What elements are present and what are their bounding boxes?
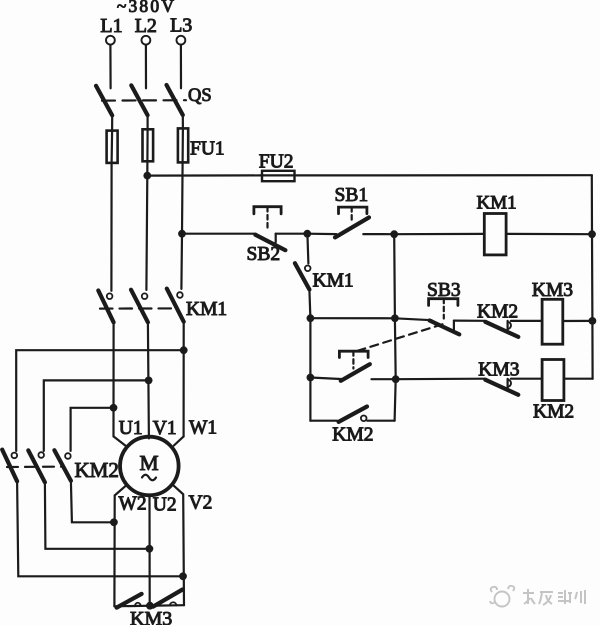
wire row2 to SB3 — [395, 318, 432, 320]
svg-text:L1: L1 — [100, 15, 122, 37]
fuse FU1 pole3 — [178, 128, 188, 162]
svg-text:QS: QS — [188, 86, 212, 106]
fuse FU2 label — [259, 152, 294, 173]
wire L2 to QS — [145, 45, 147, 89]
wire right rail lower segment — [591, 321, 593, 379]
watermark logo — [490, 586, 514, 607]
wire QS2 to FU1b — [147, 115, 149, 129]
svg-text:KM1: KM1 — [313, 271, 354, 292]
wire SB2 to node A — [276, 233, 308, 235]
wire branch row2-row3 — [394, 318, 397, 379]
contactor KM1 linkage dashed — [100, 307, 177, 309]
contactor KM1 main pole3 — [167, 289, 184, 322]
svg-text:SB3: SB3 — [427, 280, 461, 301]
wire left rail row2-row3 — [309, 318, 311, 377]
svg-text:FU2: FU2 — [259, 152, 294, 173]
wire L1 FU1 to KM1 main — [110, 163, 112, 291]
wire right rail mid segment — [591, 234, 594, 321]
terminal label W2 — [119, 494, 147, 515]
wire L1 to QS — [109, 45, 111, 89]
contactor KM2 main label — [75, 458, 119, 482]
node U2 join — [146, 545, 154, 553]
svg-text:~380V: ~380V — [117, 0, 176, 16]
wire crossover L1 to KM2 pole3 — [71, 408, 114, 451]
contactor KM3 pole2 — [153, 590, 183, 607]
coil KM1 label — [477, 193, 517, 214]
svg-text:SB1: SB1 — [335, 185, 369, 206]
node row3 mid — [392, 375, 400, 383]
terminal label U2 — [153, 495, 177, 516]
contactor KM2 linkage dashed — [7, 466, 63, 469]
svg-text:V2: V2 — [189, 493, 213, 514]
switch QS pole 2 blade — [131, 85, 147, 115]
coil KM1 — [484, 214, 506, 255]
pushbutton SB3 NC half — [429, 299, 460, 335]
svg-text:U1: U1 — [119, 418, 143, 439]
svg-text:L3: L3 — [170, 15, 192, 37]
contactor KM2 main pole3 — [54, 450, 71, 481]
fuse FU2 — [262, 171, 295, 181]
wire SB3 to KM2 NC — [454, 320, 485, 322]
svg-text:KM3: KM3 — [478, 360, 519, 381]
contact KM2 aux self-latch — [339, 407, 367, 422]
svg-text:KM3: KM3 — [130, 608, 172, 625]
wire row1 left — [182, 233, 256, 235]
mechanical link SB3 dashed — [358, 324, 444, 351]
contact KM2 aux label — [332, 425, 373, 446]
switch QS pole 3 blade — [167, 85, 183, 115]
pushbutton SB3 NO half — [339, 351, 369, 381]
contact KM2 NC interlock row2 — [485, 321, 518, 337]
wire U2 from motor — [148, 495, 150, 605]
node W2 join — [110, 518, 118, 526]
svg-text:FU1: FU1 — [190, 139, 225, 160]
wire U1 phase down — [112, 322, 114, 436]
wire KM2 pole3 to W2 — [71, 481, 114, 523]
node KM3 mid — [146, 602, 154, 610]
wire SB3NO to node row3 mid — [372, 378, 396, 380]
node row2 left — [307, 314, 315, 322]
terminal label V2 — [189, 493, 213, 514]
wire KM2 coil to rail corner — [564, 378, 593, 380]
svg-text:KM2: KM2 — [533, 401, 574, 422]
switch QS linkage dashed — [102, 99, 186, 102]
fuse FU1 pole2 — [143, 129, 154, 161]
wire W2 from motor — [114, 485, 126, 606]
wire FU2 to right rail — [295, 174, 592, 176]
switch QS pole 1 blade — [96, 86, 112, 116]
node A row1 — [303, 230, 311, 238]
wire L2 FU1 to node FU2tap — [146, 161, 148, 175]
pushbutton SB2 label — [247, 244, 281, 265]
pushbutton SB1 label — [335, 185, 369, 206]
terminal label U1 — [119, 418, 143, 439]
wire V2 from motor — [173, 485, 185, 606]
wire crossover L3 to KM2 pole1 — [16, 350, 184, 451]
wire row4 up to node — [395, 379, 396, 421]
wire W1 into motor — [174, 436, 184, 445]
coil KM2 — [542, 360, 564, 401]
wire KM3NC to KM2 coil — [511, 378, 542, 380]
watermark text JiChengPeiXun — [523, 589, 585, 605]
svg-text:L2: L2 — [135, 15, 157, 37]
wire row3 to SB3NO — [310, 378, 343, 380]
contactor KM3 pole1 — [117, 594, 142, 608]
wire KM3 star bar — [114, 605, 184, 606]
wire W1 phase down — [183, 322, 185, 437]
contact KM1 aux self-latch — [295, 234, 311, 319]
wire L2 node to KM1 main — [145, 176, 148, 290]
node L3 crossover — [180, 346, 188, 354]
node L2 crossover — [145, 377, 153, 385]
svg-text:KM1: KM1 — [186, 299, 227, 320]
node control tap on L3 — [178, 230, 186, 238]
contactor KM1 main pole1 — [98, 291, 113, 323]
wire row4 left — [310, 420, 337, 422]
pushbutton SB2 (NC stop) — [254, 207, 286, 251]
fuse FU1 pole1 — [107, 131, 118, 163]
terminal L2 — [135, 15, 157, 45]
contactor KM1 main pole2 — [131, 290, 148, 323]
wire row2 left — [310, 317, 395, 319]
wire U1 into motor — [114, 436, 127, 446]
node FU2 tap on L2 — [143, 172, 151, 180]
wire QS3 to FU1c — [182, 115, 184, 129]
wire right rail top segment — [591, 175, 593, 234]
contact KM1 aux label — [313, 271, 354, 292]
switch QS label — [188, 86, 212, 106]
contact KM3 NC interlock row3 — [485, 379, 518, 395]
node L1 crossover — [110, 404, 118, 412]
wire SB1 to node B — [363, 233, 394, 235]
svg-text:KM3: KM3 — [532, 280, 573, 301]
contactor KM2 main pole2 — [28, 450, 45, 482]
wire crossover L2 to KM2 pole2 — [44, 380, 149, 451]
svg-text:SB2: SB2 — [247, 244, 281, 265]
wire row3 to KM3 NC — [396, 378, 485, 381]
wire node A to SB1 — [307, 233, 336, 236]
contact KM2 NC label — [477, 302, 518, 323]
svg-text:KM2: KM2 — [75, 458, 119, 482]
coil KM3 label — [532, 280, 573, 301]
contact KM3 NC label — [478, 360, 519, 381]
wire row4 right — [367, 420, 394, 422]
coil KM3 — [542, 299, 563, 344]
supply label ~380V — [117, 0, 176, 16]
terminal L3 — [170, 15, 192, 45]
wire left rail row3-row4 — [309, 378, 311, 421]
node B row1 — [390, 230, 398, 238]
svg-text:U2: U2 — [153, 495, 177, 516]
svg-text:KM2: KM2 — [477, 302, 518, 323]
motor M — [120, 437, 179, 496]
svg-text:W1: W1 — [189, 418, 217, 439]
wire QS1 to FU1a — [111, 115, 113, 131]
coil KM2 label — [533, 401, 574, 422]
wire KM2 pole2 to U2 — [45, 482, 149, 549]
terminal label V1 — [153, 418, 177, 439]
terminal label W1 — [189, 418, 217, 439]
node rail row2 — [589, 317, 597, 325]
svg-text:W2: W2 — [119, 494, 147, 515]
wire feed to FU2 — [147, 174, 262, 176]
pushbutton SB1 (NO start) — [335, 207, 369, 237]
node row3 left — [307, 374, 315, 382]
fuse FU1 label — [190, 139, 225, 160]
wire KM3 coil to rail — [563, 320, 593, 322]
svg-text:KM2: KM2 — [332, 425, 373, 446]
wire KM1 coil to rail — [506, 233, 592, 236]
wire L3 FU1 to node CtrlTap — [181, 162, 184, 233]
svg-text:KM1: KM1 — [477, 193, 517, 214]
node V2 join — [179, 572, 187, 580]
contactor KM1 main label — [186, 299, 227, 320]
node rail row1 — [588, 230, 596, 238]
wire KM2NC to KM3 coil — [511, 320, 542, 322]
pushbutton SB3 label — [427, 280, 461, 301]
wire L3 node to KM1 main — [180, 234, 183, 289]
terminal L1 — [100, 15, 122, 45]
contactor KM2 main pole1 — [2, 450, 17, 482]
wire V1 phase down — [148, 322, 149, 438]
contactor KM3 label — [130, 608, 172, 625]
wire branch B down — [393, 234, 396, 318]
node row2 mid — [391, 314, 399, 322]
wire L3 to QS — [180, 45, 182, 89]
wire KM2 pole1 to V2 — [17, 481, 183, 576]
wire node B to KM1 coil — [394, 233, 484, 236]
svg-text:M: M — [139, 451, 158, 475]
